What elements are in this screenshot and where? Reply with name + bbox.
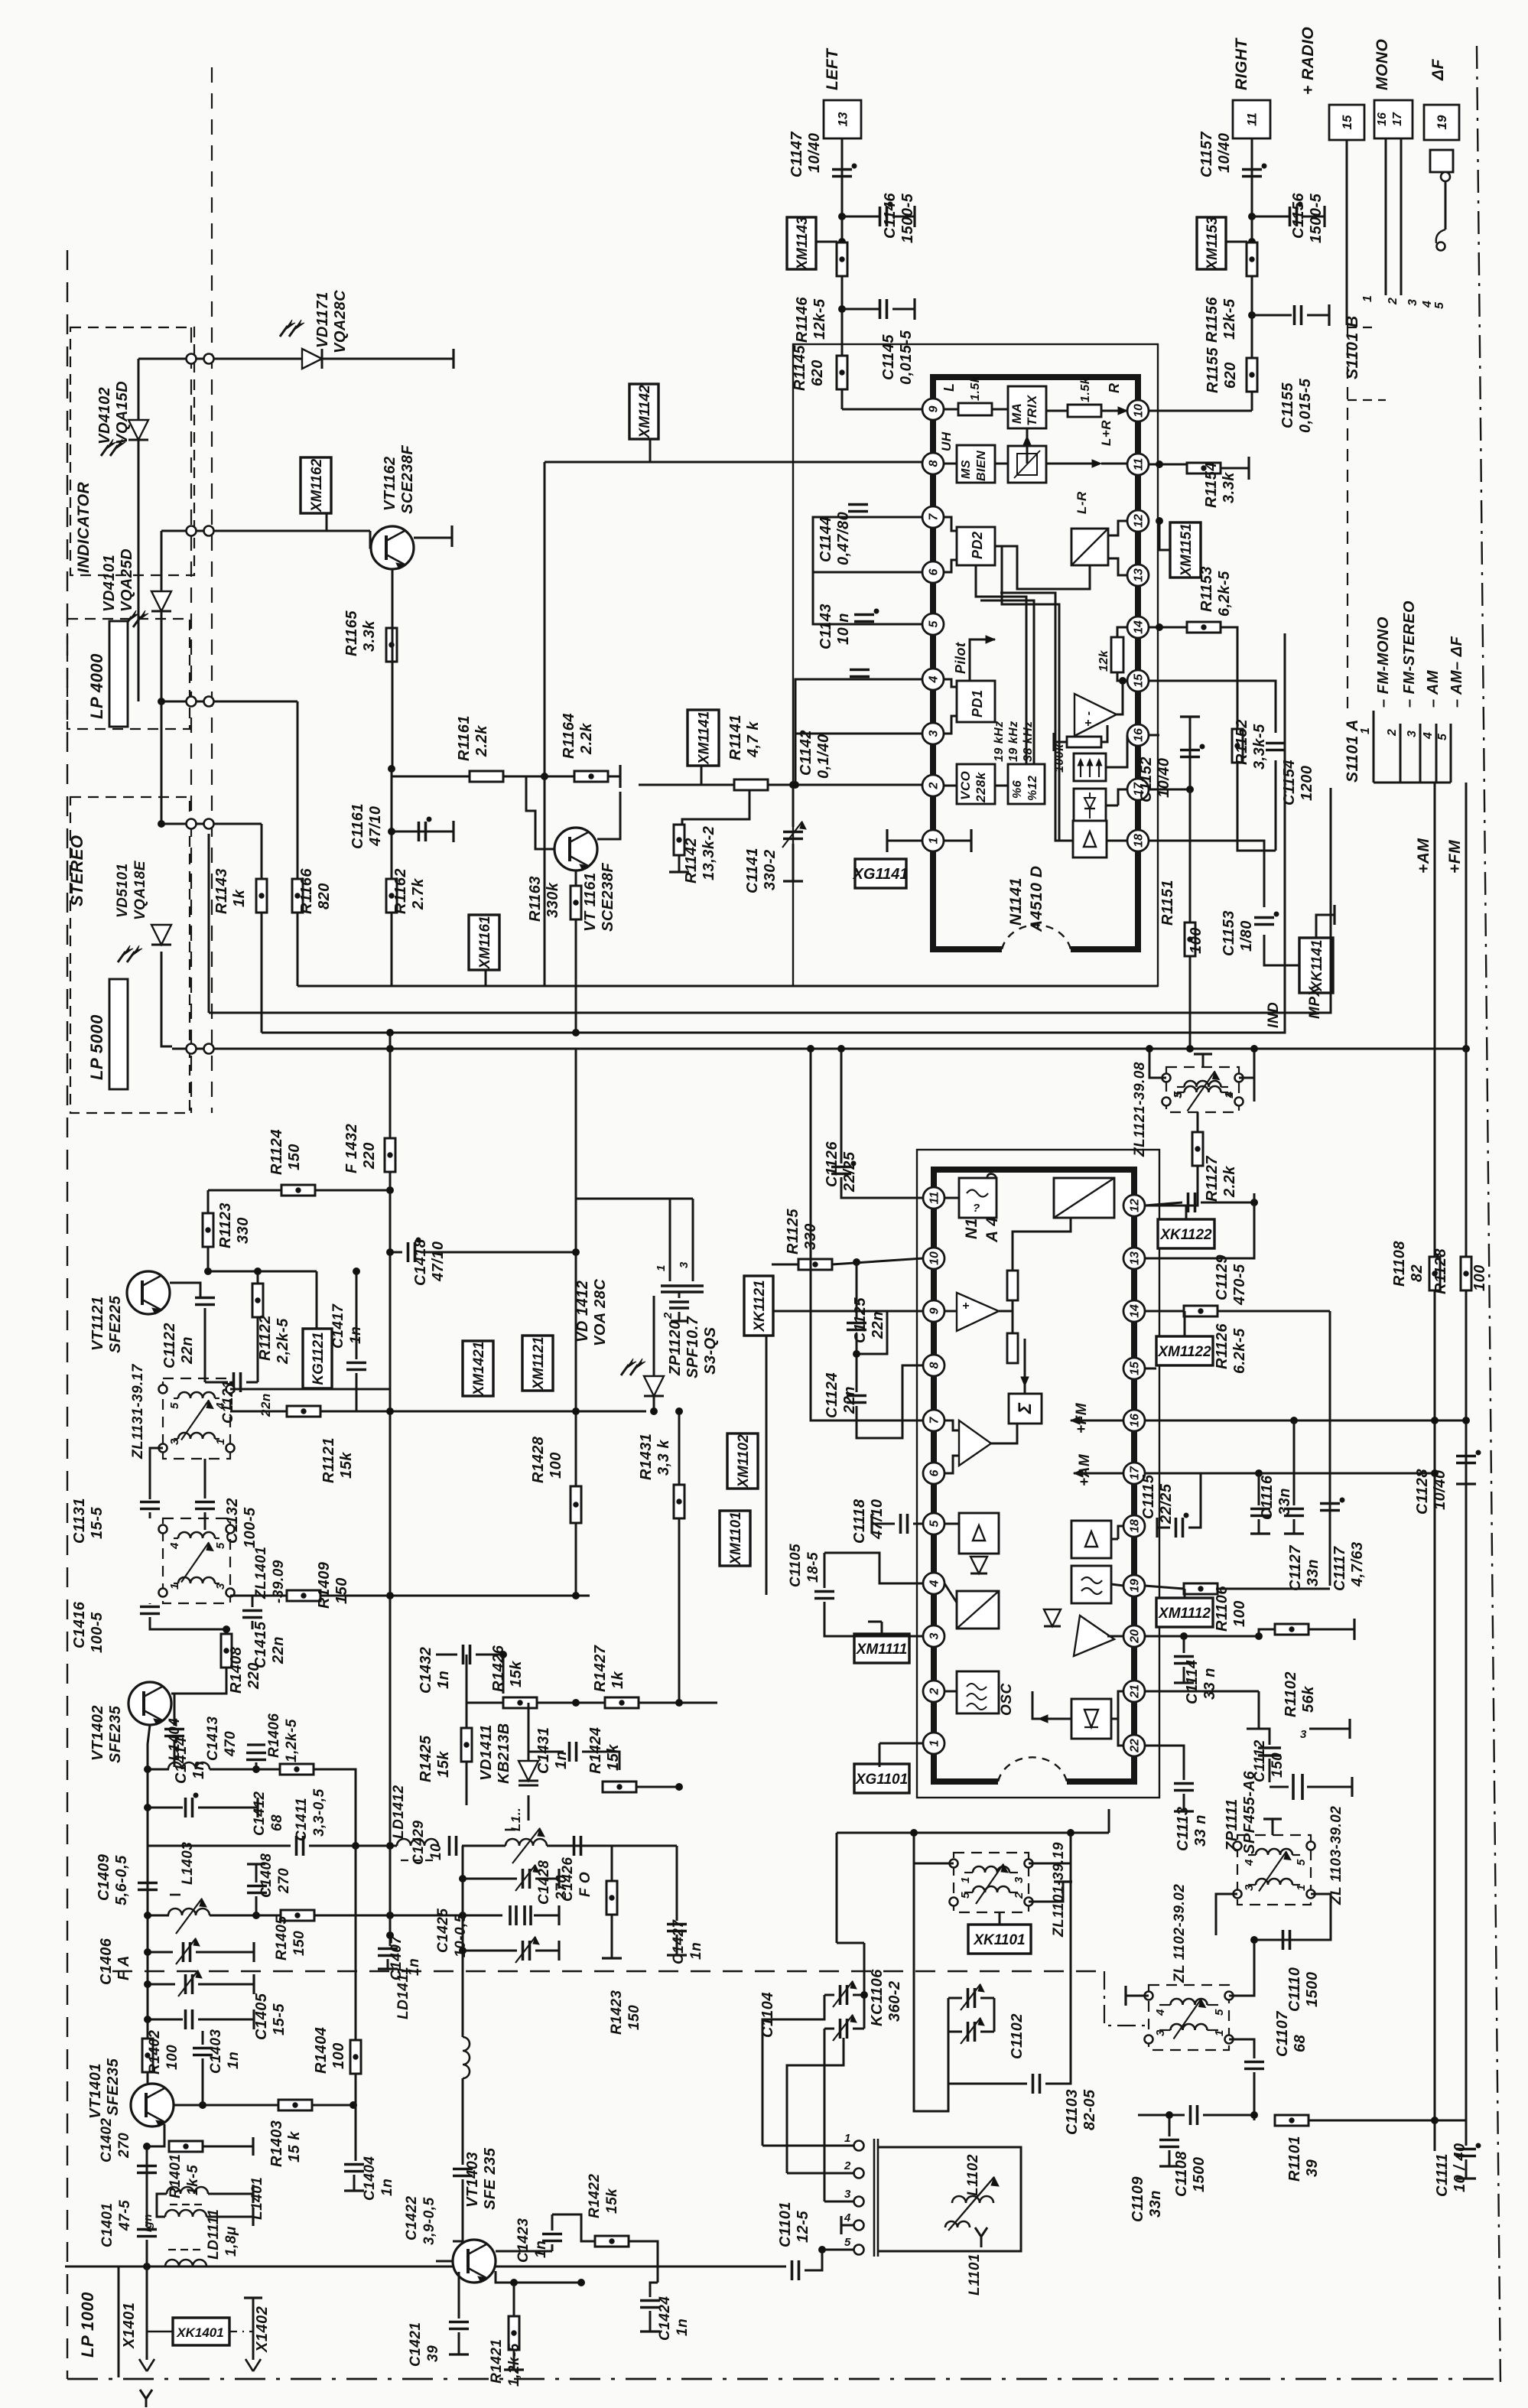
svg-text:13: 13 [1133, 568, 1146, 582]
svg-text:XM1161: XM1161 [477, 916, 493, 969]
wire pin13 ext [1145, 1193, 1254, 1258]
wire sigma up [1024, 1339, 1026, 1394]
svg-text:VD4102: VD4102 [96, 387, 113, 444]
delta box pin18 [1073, 821, 1107, 857]
ground bar right of VD1171 [452, 349, 454, 369]
wire R1122 [257, 1271, 259, 1284]
svg-text:150: 150 [626, 2005, 642, 2030]
svg-text:LD1412: LD1412 [391, 1785, 407, 1839]
XK1141 top lead [1316, 915, 1335, 938]
svg-text:330k: 330k [545, 882, 561, 918]
svg-text:1500-5: 1500-5 [1308, 193, 1325, 243]
wire indicator top rail [138, 358, 454, 360]
svg-text:IND: IND [1266, 1002, 1282, 1028]
wire C1418 [390, 1251, 402, 1254]
svg-text:C1417: C1417 [330, 1303, 346, 1349]
svg-text:5: 5 [844, 2236, 851, 2249]
L1101 contact 1 [854, 2141, 864, 2151]
capacitor C1105 [814, 1590, 834, 1593]
wire 17 down [1400, 138, 1403, 295]
capacitor C1132 [195, 1501, 215, 1504]
svg-text:ΔF: ΔF [1429, 58, 1447, 81]
capacitor C1113 [1174, 1782, 1194, 1785]
wire C1125 [856, 1262, 858, 1320]
svg-text:47-5: 47-5 [117, 2200, 133, 2231]
wire R1155 column [1251, 315, 1253, 411]
resistor R1421 [509, 2316, 519, 2350]
LP5000 inner rect [109, 979, 128, 1089]
dot x192 y2963 [144, 2263, 151, 2270]
svg-text:VOA 28C: VOA 28C [592, 1279, 609, 1346]
pin 18 IC2 [1123, 1515, 1145, 1537]
capacitor C1112 [1258, 1746, 1281, 1749]
wire pin9 IC2 ext [773, 1310, 923, 1313]
svg-text:1: 1 [928, 1739, 941, 1746]
svg-text:C1155: C1155 [1279, 382, 1296, 428]
capacitor C1417 [346, 1362, 366, 1365]
KG1121 lead [316, 1271, 318, 1329]
capacitor C1402 [137, 2165, 157, 2168]
x605 rail [462, 1846, 464, 2029]
svg-text:1: 1 [928, 837, 941, 844]
wire to matrix [992, 408, 1008, 411]
resistor R1141 [734, 779, 768, 790]
svg-text:XK1101: XK1101 [973, 1932, 1025, 1948]
svg-text:C1408: C1408 [258, 1853, 275, 1899]
wire C1145 branch [842, 308, 879, 311]
capacitor C1424 [640, 2299, 660, 2302]
coil L1102 [952, 2196, 993, 2203]
capacitor C1429 [448, 1836, 451, 1856]
capacitor C1154 [1266, 742, 1286, 745]
svg-text:22n: 22n [270, 1636, 287, 1664]
svg-text:10: 10 [428, 1843, 444, 1860]
wire slant pin20 [1107, 1635, 1123, 1638]
svg-text:R1128: R1128 [1432, 1248, 1449, 1294]
resistor R1161 [470, 771, 503, 782]
svg-text:+FM: +FM [1446, 840, 1464, 874]
transistor VT1402 [128, 1682, 171, 1725]
coil LD1411 [463, 2037, 470, 2078]
wire C1108 [1138, 2114, 1185, 2117]
svg-text:S3-QS: S3-QS [702, 1326, 719, 1375]
svg-text:7: 7 [928, 513, 941, 520]
wire R1166 down [297, 913, 299, 986]
wire VD1412 [653, 1296, 655, 1376]
svg-text:2: 2 [928, 782, 941, 789]
open junction x250 y1371 [187, 1044, 197, 1054]
C1407 ground [378, 1967, 398, 1970]
LED VD1412 [644, 1376, 664, 1396]
wire C1432 [436, 1654, 457, 1656]
wire row2594 [198, 1983, 254, 1986]
S1101B bracket line [1346, 295, 1348, 325]
svg-text:C1111: C1111 [1434, 2153, 1451, 2197]
svg-text:R1127: R1127 [1204, 1156, 1221, 1202]
L-R box [1071, 529, 1108, 565]
XM1162 lead [326, 513, 328, 531]
svg-text:– AM– ΔF: – AM– ΔF [1448, 636, 1465, 708]
bus y1371 left rise [208, 834, 210, 1013]
svg-text:47/10: 47/10 [367, 805, 384, 847]
resistor R1162 [386, 879, 397, 913]
svg-text:100: 100 [1188, 927, 1205, 954]
row y2456 C1426 [463, 1878, 517, 1880]
LED VD4101 [151, 591, 171, 611]
svg-text:14: 14 [1133, 620, 1146, 634]
svg-text:15k: 15k [604, 2188, 620, 2214]
svg-text:22n: 22n [870, 1311, 886, 1339]
wire C1121 [205, 1381, 228, 1384]
wire C1161 row [392, 831, 454, 833]
svg-text:%6: %6 [1011, 780, 1024, 799]
pin 2 IC2 [923, 1681, 944, 1702]
delta box right [1071, 1521, 1111, 1558]
capacitor C1122 [195, 1297, 215, 1300]
svg-text:R1152: R1152 [1234, 719, 1250, 765]
wire R1123 [207, 1190, 210, 1213]
resistor R1404 [350, 2040, 361, 2074]
capacitor C1152 [1180, 749, 1200, 752]
wire R1101 [1309, 2120, 1435, 2122]
resistor R1163 [571, 886, 581, 919]
svg-text:5: 5 [928, 620, 941, 627]
varcap ground [535, 1950, 559, 1952]
svg-text:VD1411: VD1411 [478, 1724, 495, 1781]
svg-text:XK1401: XK1401 [176, 2325, 223, 2340]
C1404 ground [353, 2175, 356, 2191]
LP1000 bracket [65, 2266, 119, 2377]
svg-text:XM1153: XM1153 [1205, 216, 1221, 271]
XM1162 label box [301, 457, 331, 513]
svg-text:19: 19 [1435, 115, 1449, 129]
svg-text:1: 1 [1361, 295, 1374, 302]
Y fork [140, 2390, 152, 2399]
wire C1146 branch [842, 216, 879, 218]
XM1143 lead [816, 241, 837, 243]
wire pin10 external [1149, 410, 1252, 412]
svg-text:10/40: 10/40 [806, 132, 823, 173]
svg-text:+ RADIO: + RADIO [1299, 27, 1317, 95]
svg-text:10/40: 10/40 [1156, 757, 1172, 798]
wire VT1121 collector [170, 1283, 200, 1297]
svg-text:270: 270 [116, 2133, 132, 2159]
svg-text:1n: 1n [533, 2240, 549, 2258]
wire MS to mod [995, 463, 1008, 465]
wire pd2 net2 [1002, 546, 1059, 841]
resistor R1423 [606, 1881, 617, 1915]
svg-text:39: 39 [425, 2345, 441, 2362]
svg-text:13,3k-2: 13,3k-2 [701, 826, 717, 880]
svg-text:C1115: C1115 [1140, 1474, 1157, 1519]
pin 10 IC2 [923, 1248, 944, 1269]
dot x1637 y283 [1249, 213, 1256, 220]
wire C1116 [1258, 1473, 1260, 1505]
svg-text:5,6-0,5: 5,6-0,5 [113, 1855, 130, 1905]
pin 1 IC2 [923, 1733, 944, 1754]
pin 5 IC1 [922, 613, 944, 635]
wire pin4 mixer [944, 1583, 957, 1603]
svg-text:R1424: R1424 [587, 1727, 604, 1774]
capacitor C1128 [1456, 1455, 1476, 1458]
PD2 box [957, 527, 995, 565]
svg-text:KB213B: KB213B [496, 1723, 512, 1784]
svg-text:L1102: L1102 [965, 2154, 981, 2196]
arrow into pin10 [1118, 407, 1127, 415]
inner wires IC2 top [999, 1310, 1013, 1313]
svg-text:R1165: R1165 [343, 610, 360, 656]
resistor R1427 [605, 1697, 639, 1708]
svg-text:18: 18 [1129, 1519, 1142, 1533]
XK1141 label box [1299, 938, 1333, 993]
ZP1120 filter [669, 1199, 671, 1281]
resistor R1106 [1184, 1583, 1218, 1594]
LED VD4102 [128, 420, 148, 440]
capacitor C1109 [1159, 2139, 1179, 2142]
XM1112 label box [1156, 1598, 1213, 1627]
nabla box [1071, 1699, 1111, 1739]
pin 21 IC2 [1123, 1681, 1145, 1702]
svg-text:15k: 15k [605, 1744, 622, 1771]
svg-text:33 n: 33 n [1201, 1668, 1218, 1700]
svg-text:15: 15 [1133, 673, 1146, 688]
capacitor C1108 [1189, 2105, 1192, 2125]
svg-text:12k-5: 12k-5 [811, 298, 828, 340]
svg-text:LD1411: LD1411 [395, 1967, 411, 2019]
svg-text:22n: 22n [258, 1393, 273, 1417]
coil L1403 [168, 1909, 210, 1915]
row y2363 [148, 1807, 183, 1809]
resistor R1123 [203, 1213, 213, 1247]
svg-text:XM1143: XM1143 [795, 216, 811, 271]
svg-text:3,3-0,5: 3,3-0,5 [311, 1788, 327, 1837]
wire R1403 right [312, 2104, 353, 2107]
wire matrix down [1026, 428, 1029, 464]
svg-text:22: 22 [1129, 1739, 1142, 1753]
wire x512 R1165 to dot [392, 569, 394, 769]
wire R1106 [1145, 1586, 1184, 1589]
box19 stub box [1430, 150, 1453, 172]
svg-text:VT1403: VT1403 [464, 2152, 481, 2208]
AM cap wires [837, 1942, 864, 1944]
svg-text:1n: 1n [553, 1751, 570, 1769]
capacitor C1111 [1456, 2148, 1476, 2151]
XG1101 label box [854, 1764, 909, 1793]
svg-text:C1117: C1117 [1331, 1546, 1348, 1591]
svg-text:R1401: R1401 [167, 2154, 184, 2199]
resistor R1425 [461, 1728, 472, 1762]
svg-text:F A: F A [115, 1955, 132, 1980]
capacitor C1409 series [138, 1882, 158, 1885]
wire delta pin18 [1111, 1538, 1118, 1541]
row y2640 [148, 2019, 183, 2021]
svg-text:XM1151: XM1151 [1179, 523, 1195, 577]
capacitor C1141 variable [792, 785, 795, 827]
pin 11 IC1 [1127, 454, 1149, 475]
svg-text:17: 17 [1129, 1466, 1142, 1480]
svg-text:VQA28C: VQA28C [332, 290, 349, 353]
svg-text:C1409: C1409 [96, 1853, 112, 1901]
L1401 wires [157, 2194, 167, 2217]
pin 17 IC1 [1127, 779, 1149, 800]
inner res b [1007, 1333, 1018, 1363]
wire ZL1121 right [1239, 1049, 1254, 1078]
svg-text:R1145: R1145 [792, 345, 808, 391]
resistor R1403 [278, 2100, 312, 2110]
svg-text:4: 4 [1243, 1859, 1256, 1866]
resistor 1.5k right [1068, 405, 1101, 417]
svg-text:VQA18E: VQA18E [132, 860, 148, 920]
svg-text:PD1: PD1 [970, 689, 985, 718]
svg-text:1200: 1200 [1299, 766, 1315, 802]
R1142 ground [678, 855, 681, 871]
svg-text:3.3k: 3.3k [1221, 472, 1237, 503]
svg-text:33n: 33n [1276, 1488, 1293, 1515]
svg-text:C1404: C1404 [362, 2156, 378, 2201]
svg-text:XK1122: XK1122 [1159, 1227, 1212, 1243]
X1401 line [146, 2266, 148, 2360]
wire pin16 ext [1145, 1420, 1466, 1422]
capacitor C1143 [854, 613, 874, 617]
pin 7 IC1 [922, 506, 944, 528]
dot bus x1912 [1463, 1046, 1470, 1053]
pin 8 IC1 [922, 453, 944, 474]
svg-text:47/10: 47/10 [430, 1241, 447, 1282]
wire pin15 external [1149, 681, 1276, 733]
svg-text:2.2k: 2.2k [578, 723, 595, 755]
svg-text:2: 2 [844, 2159, 851, 2172]
divider box [1008, 764, 1045, 804]
svg-text:5: 5 [168, 1402, 181, 1409]
pin 15 IC2 [1123, 1358, 1145, 1379]
svg-text:0,015-5: 0,015-5 [898, 330, 915, 385]
svg-text:C1406: C1406 [98, 1938, 115, 1985]
wire C1129 [1145, 1202, 1182, 1206]
XM1142 lead [649, 439, 652, 462]
capacitor C1131 [140, 1501, 160, 1504]
svg-text:C1416: C1416 [71, 1601, 88, 1648]
dot pin17 junctions [1256, 1470, 1263, 1477]
svg-text:C1424: C1424 [657, 2296, 673, 2341]
connector box 13 LEFT [824, 100, 861, 138]
svg-text:1n: 1n [675, 2319, 691, 2336]
wire R1166 up [297, 701, 299, 879]
wire C1122 down [204, 1308, 206, 1319]
wire C1118 [872, 1523, 895, 1525]
svg-text:C1116: C1116 [1259, 1475, 1276, 1520]
resistor R1422 [595, 2236, 629, 2247]
svg-text:XM1112: XM1112 [1158, 1606, 1211, 1622]
coil LD1111 [165, 2260, 206, 2266]
svg-text:XM1142: XM1142 [637, 385, 653, 439]
ground R1154 [1221, 467, 1249, 470]
transistor VT1401 [131, 2084, 174, 2127]
svg-text:R1108: R1108 [1391, 1241, 1408, 1287]
svg-text:12k-5: 12k-5 [1221, 298, 1238, 340]
svg-text:19 kHz: 19 kHz [993, 721, 1006, 762]
svg-text:R1101: R1101 [1286, 2136, 1303, 2182]
wire ZL1131 pin3 down [150, 1448, 163, 1499]
svg-text:R1426: R1426 [490, 1645, 507, 1692]
pin 1 IC1 [922, 830, 944, 851]
svg-text:R1146: R1146 [794, 297, 811, 343]
svg-text:SFE 235: SFE 235 [482, 2147, 499, 2210]
capacitor C1121 [232, 1372, 236, 1392]
capacitor C1103 [1032, 2074, 1035, 2094]
ground bar C1155 [1328, 304, 1330, 326]
svg-text:F 1432: F 1432 [343, 1124, 360, 1173]
svg-text:1: 1 [655, 1264, 668, 1271]
coil L1404 [168, 1762, 210, 1769]
wire L-R to pin13 [1108, 558, 1127, 575]
resistor R1152 [1232, 729, 1243, 763]
svg-text:9: 9 [928, 1307, 941, 1314]
inner wire pin9 to 1.5k [944, 408, 958, 411]
svg-text:0,015-5: 0,015-5 [1297, 378, 1314, 433]
row y2550 varcap [463, 1950, 517, 1952]
IC N1141 outer box [793, 344, 1158, 986]
svg-text:X1401: X1401 [121, 2302, 138, 2349]
capacitor C1129 [1187, 1193, 1190, 1212]
svg-text:21: 21 [1129, 1684, 1142, 1699]
row y2413 cont [309, 1845, 397, 1847]
capacitor C1146 [879, 207, 882, 226]
svg-text:C1161: C1161 [349, 803, 366, 849]
wire emitter col [146, 2162, 148, 2176]
bus IND-MPX y1289 [297, 985, 1158, 988]
wire pin7 ext [811, 1049, 923, 1420]
svg-text:15-5: 15-5 [89, 1507, 106, 1539]
svg-text:R1405: R1405 [274, 1916, 290, 1961]
svg-text:3: 3 [1406, 299, 1419, 306]
capacitor C1114 [1174, 1655, 1194, 1658]
capacitor C1412 [184, 1798, 187, 1817]
wire c2 col [787, 2038, 844, 2173]
resistor R1406 [280, 1764, 314, 1775]
svg-text:1n: 1n [688, 1942, 704, 1960]
resistor R1142 [674, 825, 684, 855]
wire C1153 down [1264, 935, 1299, 965]
XM1122 lead [1184, 1311, 1186, 1336]
wire pin7 jog to PD2 [944, 517, 957, 531]
antenna Y [975, 2227, 987, 2237]
wire 12k net [1117, 627, 1127, 637]
wire C1114 [1183, 1636, 1185, 1653]
svg-text:5: 5 [928, 1519, 941, 1527]
wire y917 rail [161, 701, 297, 703]
connector box 15 [1329, 105, 1364, 140]
wire R1156 column [1251, 138, 1253, 358]
XM1141 lead [701, 766, 703, 785]
svg-text:C1107: C1107 [1274, 2011, 1291, 2057]
XK1122 label box [1158, 1219, 1214, 1248]
svg-text:220: 220 [245, 1662, 262, 1690]
R1141 tap [682, 790, 749, 825]
wire ZL1121 to C1129 [1253, 1078, 1256, 1101]
wire R1431 [678, 1411, 681, 1485]
resistor R1409 [287, 1590, 320, 1601]
svg-text:VCO: VCO [958, 771, 973, 800]
svg-text:R1406: R1406 [266, 1713, 282, 1759]
svg-text:5: 5 [1433, 301, 1446, 309]
wire C1431 [528, 1751, 564, 1753]
wire pin20 ext [1145, 1635, 1259, 1638]
svg-text:SFE225: SFE225 [107, 1295, 124, 1353]
pin 8 IC2 [923, 1355, 944, 1376]
svg-text:F O: F O [577, 1872, 593, 1897]
ground bar C1156 [1323, 206, 1325, 227]
svg-text:1n: 1n [379, 2179, 395, 2196]
